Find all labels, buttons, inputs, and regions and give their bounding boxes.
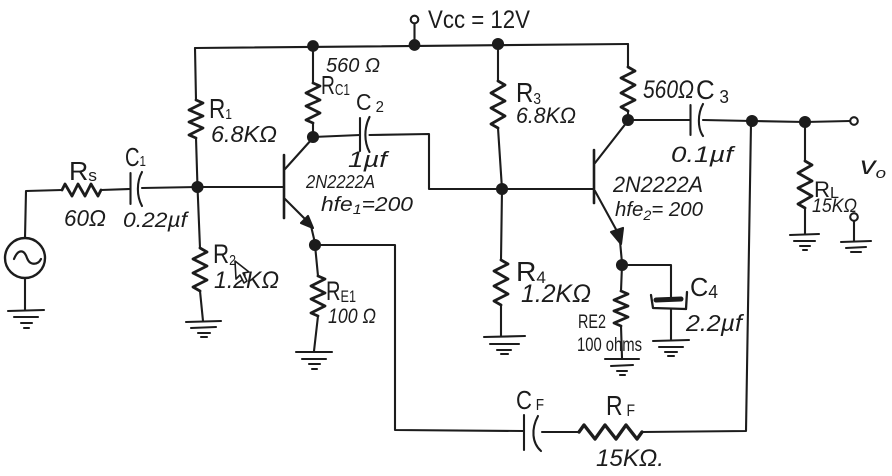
transistor Q1	[284, 139, 315, 243]
transistor Q2	[594, 122, 627, 263]
node feedback tap	[747, 116, 757, 126]
capacitor CF	[524, 415, 541, 451]
wire RL bottom	[804, 208, 806, 234]
wire R3 top	[497, 44, 499, 81]
svg-text:15KΩ.: 15KΩ.	[596, 445, 664, 472]
resistor RE1	[311, 276, 325, 316]
wire collector Q1 to C2	[313, 135, 360, 137]
capacitor C4 electrolytic	[651, 292, 687, 309]
node emitter Q2	[617, 260, 627, 270]
output terminal vo	[850, 117, 858, 125]
ground (R2)	[186, 321, 221, 337]
source Vs sine generator	[5, 238, 45, 278]
wire emitter Q2 to C4	[622, 265, 671, 297]
resistor RL	[798, 161, 812, 208]
capacitor C2	[360, 117, 370, 152]
wire R1 top	[195, 48, 196, 100]
svg-text:1µf: 1µf	[348, 147, 391, 172]
svg-text:15KΩ: 15KΩ	[812, 196, 857, 217]
svg-text:560Ω: 560Ω	[643, 76, 694, 104]
node junction R3/rail	[493, 39, 503, 49]
svg-text:2N2222A: 2N2222A	[612, 172, 703, 197]
wire R4 top	[501, 189, 502, 260]
wire collector Q2 to C3	[628, 119, 690, 121]
resistor R1	[189, 100, 203, 138]
svg-text:Rs: Rs	[69, 156, 97, 186]
node collector Q2	[623, 115, 633, 125]
wire Rs to C1	[101, 189, 130, 190]
svg-text:RE2: RE2	[578, 312, 606, 333]
node collector Q1	[308, 132, 318, 142]
svg-text:100 ohms: 100 ohms	[577, 335, 642, 356]
resistor Rs	[62, 184, 101, 196]
resistor RF	[579, 425, 642, 439]
svg-text:hfe1=200: hfe1=200	[321, 194, 413, 217]
wire RC2 bottom	[627, 111, 629, 120]
wire RC2 top (560Ω stage 2)	[627, 44, 629, 67]
wire RL top	[804, 122, 806, 161]
resistor R2	[193, 248, 207, 291]
wire to output terminal	[805, 121, 850, 122]
capacitor C3	[691, 104, 704, 136]
wire RE2 bottom	[621, 326, 622, 358]
ground (R4)	[484, 336, 525, 354]
svg-text:hfe2= 200: hfe2= 200	[615, 199, 703, 223]
ground (source)	[8, 310, 44, 328]
svg-text:C F: C F	[516, 385, 544, 415]
svg-text:0.1µf: 0.1µf	[671, 142, 737, 167]
node junction Vcc tap	[410, 40, 420, 50]
svg-text:6.8KΩ: 6.8KΩ	[211, 121, 277, 147]
node base junction Q2	[497, 184, 507, 194]
svg-text:C4: C4	[690, 272, 718, 302]
svg-text:C1: C1	[125, 142, 146, 172]
wire feedback left leg	[315, 245, 523, 431]
wire RC1 bottom	[312, 123, 314, 137]
svg-text:60Ω: 60Ω	[64, 205, 106, 231]
svg-text:R2: R2	[213, 239, 236, 269]
wire C4 bottom	[670, 309, 672, 340]
Vcc terminal	[411, 16, 419, 45]
wire C1 to base junction	[142, 187, 198, 188]
wire RE2 top	[621, 265, 622, 291]
wire R4 bottom	[500, 305, 502, 336]
wire Vcc top rail	[195, 44, 628, 48]
svg-text:C 3: C 3	[696, 75, 729, 107]
svg-text:R1: R1	[209, 93, 232, 124]
ground (RL)	[790, 234, 819, 250]
wire R3 bottom	[498, 128, 502, 189]
svg-text:1.2KΩ: 1.2KΩ	[521, 280, 591, 308]
wire source bottom	[24, 278, 26, 310]
wire feedback right leg	[642, 123, 751, 432]
svg-text:vo: vo	[860, 152, 886, 182]
resistor R4	[494, 260, 508, 305]
wire RC1 top	[312, 46, 314, 83]
wire source to Rs	[25, 190, 62, 238]
wire CF to RF	[542, 431, 579, 433]
ground (C4)	[653, 340, 689, 356]
resistor RE2	[614, 291, 628, 326]
svg-text:2.2µf: 2.2µf	[685, 310, 745, 336]
resistor RC2 560Ω	[621, 67, 635, 111]
svg-text:2N2222A: 2N2222A	[305, 172, 375, 192]
node RL junction	[800, 117, 810, 127]
wire R1 bottom	[196, 138, 198, 187]
wire base Q1	[198, 186, 284, 188]
svg-text:6.8KΩ: 6.8KΩ	[516, 103, 576, 128]
capacitor C1	[131, 172, 143, 206]
wire base Q2	[502, 188, 594, 190]
wire R2 bottom	[200, 291, 203, 321]
resistor R3	[491, 81, 505, 128]
svg-text:R F: R F	[606, 390, 635, 421]
wire R2 top	[198, 187, 201, 248]
svg-text:100 Ω: 100 Ω	[328, 305, 376, 328]
cursor arrow doodle	[235, 261, 249, 283]
wire to RL junction	[752, 121, 805, 122]
output ground terminal	[850, 213, 858, 241]
wire RE1 bottom	[314, 316, 318, 351]
wire C2 to base junction Q2	[370, 134, 503, 189]
node base junction Q1	[193, 182, 203, 192]
node junction RC1/rail	[308, 41, 318, 51]
ground (output terminal)	[841, 241, 871, 252]
svg-text:C 2: C 2	[356, 89, 384, 116]
ground (RE2)	[605, 359, 639, 375]
svg-text:RE1: RE1	[326, 276, 356, 306]
wire RE1 top	[315, 245, 318, 276]
svg-text:0.22µf: 0.22µf	[123, 209, 189, 232]
resistor RC1	[306, 83, 320, 123]
ground (RE1)	[296, 352, 332, 369]
node emitter Q1	[310, 240, 320, 250]
svg-text:Vcc = 12V: Vcc = 12V	[428, 6, 530, 34]
wire C3 to output	[703, 120, 752, 121]
